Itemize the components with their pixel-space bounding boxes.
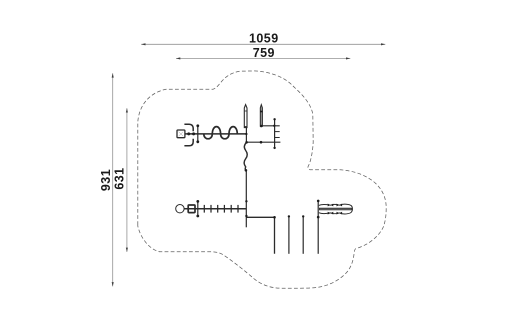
svg-text:759: 759 xyxy=(253,46,275,60)
svg-text:631: 631 xyxy=(112,167,126,189)
svg-text:1059: 1059 xyxy=(249,32,279,46)
svg-text:931: 931 xyxy=(99,169,113,191)
